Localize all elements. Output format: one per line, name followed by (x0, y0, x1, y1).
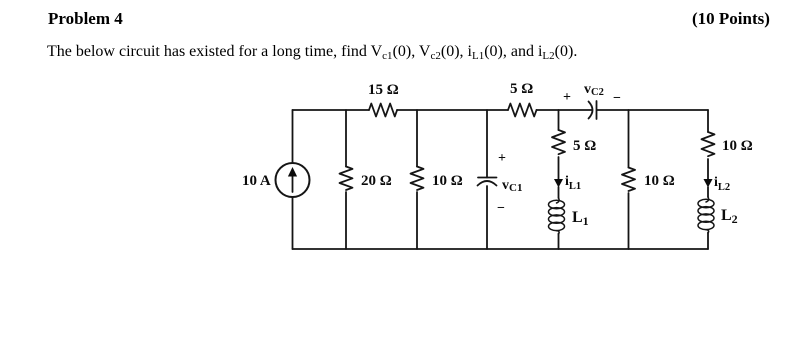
capacitor C2 vC2 (563, 82, 621, 119)
resistor R4 5 ohm top (508, 81, 537, 117)
resistor R7 10 ohm right (702, 110, 753, 156)
svg-text:10 A: 10 A (242, 173, 271, 189)
svg-text:−: − (613, 91, 621, 106)
title line (48, 9, 123, 29)
svg-text:vC2: vC2 (584, 82, 604, 98)
svg-text:5 Ω: 5 Ω (510, 81, 533, 97)
svg-text:10 Ω: 10 Ω (432, 173, 463, 189)
resistor R6 10 ohm middle (622, 110, 675, 249)
wire top to capacitor C2 (537, 109, 593, 111)
svg-text:+: + (498, 151, 506, 166)
wire top mid segment (397, 109, 508, 111)
current source IS 10 A (242, 110, 310, 249)
resistor R2 20 ohm (340, 110, 392, 249)
current arrow iL1 (554, 157, 581, 192)
inductor L2 (698, 187, 738, 249)
svg-text:+: + (563, 90, 571, 105)
inductor L1 (549, 187, 589, 249)
svg-text:15 Ω: 15 Ω (368, 82, 399, 98)
resistor R5 5 ohm vertical (552, 110, 596, 154)
svg-text:iL1: iL1 (565, 174, 581, 192)
svg-text:L1: L1 (572, 209, 589, 228)
svg-text:10 Ω: 10 Ω (722, 138, 753, 154)
bottom wire (293, 248, 709, 250)
resistor R3 10 ohm (411, 110, 463, 249)
svg-text:iL2: iL2 (714, 175, 730, 193)
svg-text:20 Ω: 20 Ω (361, 173, 392, 189)
svg-text:L2: L2 (721, 207, 738, 226)
wire top-left segment A to 15-ohm (293, 109, 370, 111)
resistor R1 15 ohm (368, 82, 399, 117)
problem statement (47, 43, 577, 61)
svg-text:10 Ω: 10 Ω (644, 173, 675, 189)
capacitor C1 vC1 (478, 110, 523, 249)
svg-text:vC1: vC1 (502, 178, 522, 194)
svg-text:−: − (497, 201, 505, 216)
current arrow iL2 (704, 159, 731, 193)
wire top-right segment (597, 109, 708, 111)
svg-text:5 Ω: 5 Ω (573, 138, 596, 154)
